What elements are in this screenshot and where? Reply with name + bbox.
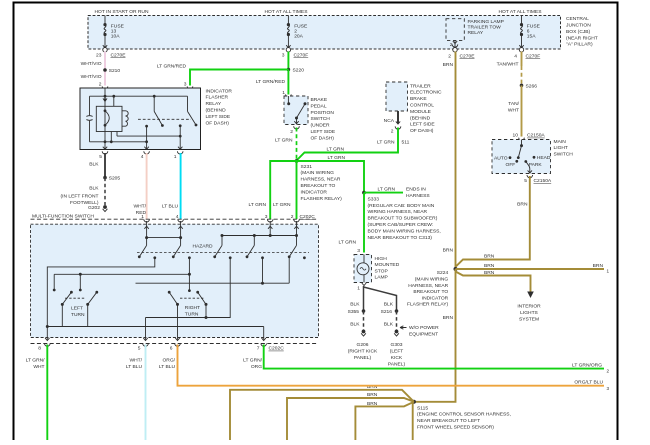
svg-text:(SUPER CAB/SUPER CREW:: (SUPER CAB/SUPER CREW: bbox=[368, 222, 434, 228]
svg-text:C270E: C270E bbox=[111, 52, 127, 58]
svg-text:EQUIPMENT: EQUIPMENT bbox=[409, 331, 438, 337]
wire BLK stop lamp to S355 bbox=[350, 286, 363, 311]
op: indicator flasher relay U1 box bbox=[80, 88, 201, 150]
labels LT GRN 511 bbox=[377, 140, 410, 146]
svg-text:PARKING LAMP: PARKING LAMP bbox=[468, 19, 504, 25]
svg-text:HARNESS, NEAR: HARNESS, NEAR bbox=[301, 177, 341, 183]
main light switch box bbox=[492, 140, 551, 174]
svg-text:2: 2 bbox=[291, 214, 294, 220]
C202C pin 1 bbox=[141, 214, 149, 222]
hazard dashed linkage bbox=[137, 252, 309, 254]
svg-text:SWITCH: SWITCH bbox=[311, 116, 331, 122]
svg-text:BRN: BRN bbox=[484, 254, 495, 260]
ground G303 bbox=[394, 330, 399, 337]
hazard blade at 254.3 bbox=[246, 245, 255, 258]
svg-text:10A: 10A bbox=[111, 34, 120, 40]
mfs pin 6 exit bbox=[170, 338, 181, 352]
mfs pin 1 arrow bbox=[144, 221, 148, 245]
label LT GRN ends bbox=[378, 187, 396, 193]
svg-text:BLK: BLK bbox=[384, 321, 394, 327]
splice S210 bbox=[103, 68, 120, 74]
label HOT AT ALL TIMES (fuse 6) bbox=[499, 9, 543, 15]
mfs rail H3 bbox=[136, 257, 290, 283]
wire LT GRN/RED S220 to relay pin 3 bbox=[190, 70, 288, 86]
svg-text:TURN: TURN bbox=[185, 311, 199, 317]
svg-text:HEAD: HEAD bbox=[537, 155, 551, 161]
svg-text:FOOTWELL): FOOTWELL) bbox=[70, 200, 99, 206]
svg-text:7: 7 bbox=[257, 346, 260, 352]
relay flasher unit rectangle bbox=[96, 106, 122, 131]
svg-text:NCA: NCA bbox=[384, 118, 395, 124]
svg-text:(ENGINE CONTROL SENSOR HARNESS: (ENGINE CONTROL SENSOR HARNESS, bbox=[417, 412, 511, 418]
svg-text:2: 2 bbox=[99, 81, 102, 87]
svg-text:RIGHT: RIGHT bbox=[185, 305, 200, 311]
svg-text:1: 1 bbox=[607, 268, 610, 273]
svg-text:NEAR BREAKOUT TO C313): NEAR BREAKOUT TO C313) bbox=[368, 235, 433, 241]
connector C202C bottom line bbox=[31, 344, 319, 352]
svg-text:FLASHER: FLASHER bbox=[206, 95, 229, 101]
label LT GRN/ORG bbox=[243, 357, 262, 370]
svg-text:ENDS IN: ENDS IN bbox=[406, 187, 426, 193]
mfs bottom rail bbox=[47, 327, 263, 340]
svg-text:C270F: C270F bbox=[294, 52, 309, 58]
mfs pin 4 arrow bbox=[178, 221, 182, 245]
hazard blade at 222 bbox=[213, 245, 222, 258]
S224 note bbox=[407, 270, 449, 308]
relay pin 2 entry bbox=[99, 81, 108, 93]
label HOT IN START OR RUN bbox=[95, 9, 149, 15]
relay pin 5 exit bbox=[99, 147, 108, 160]
mfs wire pin 5 drop bbox=[145, 318, 147, 340]
wire LT GRN/WHT pin8 down bbox=[46, 345, 48, 441]
svg-text:C202C: C202C bbox=[300, 214, 316, 220]
svg-text:(MAIN WIRING: (MAIN WIRING bbox=[415, 277, 449, 283]
label BRN branch3 bbox=[484, 270, 495, 276]
hazard rail 2 bbox=[221, 234, 297, 237]
svg-text:C2150A: C2150A bbox=[534, 178, 552, 184]
svg-text:LT GRN: LT GRN bbox=[273, 202, 291, 208]
relay pin 4 exit bbox=[141, 147, 150, 160]
svg-text:INDICATOR: INDICATOR bbox=[422, 295, 449, 301]
hazard rail 1 bbox=[147, 237, 181, 239]
svg-text:6: 6 bbox=[527, 29, 530, 35]
wire WHT/RED relay pin4 to C202C pin1 bbox=[146, 153, 148, 219]
label RIGHT TURN bbox=[185, 305, 200, 317]
svg-text:(IN LEFT FRONT: (IN LEFT FRONT bbox=[61, 193, 99, 199]
hazard contacts bbox=[153, 256, 305, 259]
label BRN above S224 bbox=[443, 248, 454, 254]
G303 labels bbox=[388, 342, 406, 368]
svg-text:MODULE: MODULE bbox=[410, 109, 432, 115]
wire LT GRN S231 to S333 bbox=[297, 161, 365, 193]
svg-text:WHT/: WHT/ bbox=[134, 204, 147, 210]
svg-text:G202: G202 bbox=[88, 205, 100, 211]
svg-text:NEAR BREAKOUT TO LEFT: NEAR BREAKOUT TO LEFT bbox=[417, 418, 480, 424]
svg-text:LT BLU: LT BLU bbox=[159, 364, 176, 370]
wire LT GRN S231 to C202C pin 3 bbox=[270, 161, 296, 219]
svg-text:BRN: BRN bbox=[443, 62, 454, 68]
connector C270F pin 3 bbox=[282, 48, 308, 59]
label LT GRN/RED horizontal bbox=[157, 64, 187, 70]
S333 note bbox=[368, 196, 441, 240]
svg-text:FUSE: FUSE bbox=[294, 23, 308, 29]
svg-text:(BEHIND: (BEHIND bbox=[206, 108, 227, 114]
svg-text:C270F: C270F bbox=[526, 53, 541, 59]
svg-text:WIRING HARNESS, NEAR: WIRING HARNESS, NEAR bbox=[368, 209, 428, 215]
svg-text:1: 1 bbox=[357, 286, 360, 292]
svg-text:LEFT SIDE: LEFT SIDE bbox=[311, 129, 336, 135]
svg-text:ORG/LT BLU: ORG/LT BLU bbox=[574, 380, 603, 386]
svg-text:4: 4 bbox=[141, 154, 144, 160]
splice S224 bbox=[454, 267, 458, 271]
svg-text:G303: G303 bbox=[391, 342, 403, 348]
S231 note bbox=[301, 164, 343, 202]
svg-text:STOP: STOP bbox=[375, 268, 388, 274]
label WHT/RED bbox=[134, 204, 147, 216]
svg-text:BRN: BRN bbox=[593, 263, 604, 269]
svg-text:INDICATOR: INDICATOR bbox=[301, 189, 328, 195]
svg-text:LT GRN: LT GRN bbox=[377, 140, 395, 146]
wire TAN/WHT S266 to light switch bbox=[521, 85, 523, 136]
svg-text:MULTI-FUNCTION SWITCH: MULTI-FUNCTION SWITCH bbox=[32, 213, 94, 219]
label ENDS IN HARNESS bbox=[406, 187, 430, 199]
svg-text:BLK: BLK bbox=[89, 161, 99, 167]
wire BRN S115 branch c bbox=[355, 402, 414, 440]
svg-text:4: 4 bbox=[514, 53, 517, 59]
label LT GRN pin2 bbox=[273, 202, 291, 208]
splice S266 bbox=[520, 83, 538, 89]
svg-text:LT BLU: LT BLU bbox=[126, 364, 143, 370]
svg-text:3: 3 bbox=[607, 386, 610, 391]
svg-text:LT BLU: LT BLU bbox=[162, 204, 179, 210]
wire LT GRN dashed brake switch to S231 bbox=[296, 128, 298, 161]
hazard feed stubs bbox=[222, 236, 254, 246]
wire BRN S224 down to S115 bbox=[414, 269, 456, 402]
hazard blade at 146.6 bbox=[138, 245, 147, 258]
label BRN light switch bbox=[517, 201, 528, 207]
label WHT/LT BLU bbox=[126, 357, 143, 370]
relay internal wire to pin 1 bbox=[117, 124, 182, 149]
svg-text:C202C: C202C bbox=[269, 346, 285, 352]
relay internal main vertical pin2-pin5 bbox=[103, 88, 108, 150]
svg-text:5: 5 bbox=[99, 154, 102, 160]
W/O POWER EQUIPMENT pointer bbox=[400, 325, 439, 337]
wire LT GRN S333 to stop lamp bbox=[363, 193, 365, 253]
splice S231 bbox=[295, 159, 299, 163]
relay pin 1 exit bbox=[174, 147, 183, 160]
relay heater coil bbox=[122, 111, 128, 126]
svg-text:BRN: BRN bbox=[367, 401, 378, 407]
label BRN a bbox=[367, 384, 378, 390]
main light switch labels bbox=[554, 139, 574, 158]
label LT GRN/ORG right bbox=[572, 363, 609, 374]
svg-text:2: 2 bbox=[294, 29, 297, 35]
svg-text:"A" PILLAR): "A" PILLAR) bbox=[566, 42, 593, 48]
label BRN right edge bbox=[593, 263, 610, 273]
svg-text:LEFT: LEFT bbox=[71, 305, 83, 311]
svg-text:HOT AT ALL TIMES: HOT AT ALL TIMES bbox=[499, 9, 543, 15]
svg-text:LT GRN: LT GRN bbox=[328, 155, 346, 161]
svg-text:LEFT SIDE: LEFT SIDE bbox=[410, 122, 435, 128]
svg-text:AUTO: AUTO bbox=[494, 155, 508, 161]
wire WHT/LT BLU pin5 down bbox=[145, 345, 147, 441]
brake switch pin 2 exit bbox=[290, 121, 299, 135]
svg-text:PEDAL: PEDAL bbox=[311, 103, 327, 109]
mfs pin 2 arrow bbox=[294, 221, 298, 245]
relay internal top rail bbox=[90, 95, 188, 97]
fuse 6 15A bbox=[519, 16, 540, 48]
wire LT BLU relay pin1 to C202C pin4 bbox=[180, 153, 182, 219]
light switch contacts bbox=[494, 140, 551, 174]
svg-text:LT GRN/RED: LT GRN/RED bbox=[157, 64, 187, 70]
central junction box CJB bbox=[88, 16, 561, 50]
svg-text:SYSTEM: SYSTEM bbox=[519, 317, 539, 323]
wire BRN S224 to interior lights bbox=[456, 272, 531, 292]
high mounted stop lamp box bbox=[354, 255, 372, 283]
mfs wire contact2 drop bbox=[188, 258, 191, 292]
label IN LEFT FRONT FOOTWELL bbox=[61, 193, 99, 206]
svg-text:ORG/: ORG/ bbox=[163, 357, 176, 363]
light switch pin 10 entry bbox=[513, 133, 546, 144]
svg-text:LT GRN: LT GRN bbox=[378, 187, 396, 193]
relay contact switch 2 bbox=[188, 96, 198, 126]
C202C pin 3 bbox=[265, 214, 273, 222]
splice S115 bbox=[412, 400, 416, 404]
label BRN b bbox=[367, 392, 378, 398]
svg-text:S355: S355 bbox=[348, 309, 360, 315]
wire LT GRN/ORG pin7 to edge ref 2 bbox=[264, 345, 604, 369]
svg-text:TURN: TURN bbox=[71, 312, 85, 318]
svg-text:LT GRN/: LT GRN/ bbox=[26, 357, 45, 363]
svg-text:C270E: C270E bbox=[460, 53, 476, 59]
relay actuation dashed line bbox=[138, 118, 191, 120]
svg-text:S220: S220 bbox=[293, 67, 305, 73]
S115 note bbox=[417, 405, 511, 430]
wire BLK stop lamp to S216 bbox=[364, 287, 397, 311]
wire ORG/LT BLU pin6 to edge ref 3 bbox=[178, 345, 605, 386]
svg-text:PANEL): PANEL) bbox=[354, 355, 372, 361]
splice S220 bbox=[287, 67, 305, 73]
mfs pin 7 exit bbox=[257, 338, 267, 352]
svg-text:(BEHIND: (BEHIND bbox=[410, 115, 431, 121]
svg-text:BRN: BRN bbox=[443, 315, 454, 321]
wire BLK dashed to G202 bbox=[89, 178, 105, 205]
splice S216 bbox=[381, 309, 399, 315]
hazard blade at 180.6 bbox=[172, 245, 181, 258]
connector C270E pin 23 bbox=[96, 48, 126, 59]
mfs pin 3 arrow bbox=[268, 221, 272, 237]
svg-text:HAZARD: HAZARD bbox=[192, 243, 213, 249]
wire LT GRN/RED fuse2 to S220 bbox=[287, 52, 289, 70]
label LT GRN pin3 bbox=[249, 202, 267, 208]
svg-text:HOT IN START OR RUN: HOT IN START OR RUN bbox=[95, 9, 149, 15]
splice S355 bbox=[348, 309, 366, 315]
svg-text:HARNESS: HARNESS bbox=[406, 193, 430, 199]
svg-text:G206: G206 bbox=[357, 342, 369, 348]
svg-text:LIGHT: LIGHT bbox=[554, 145, 568, 151]
label TAN/WHT bbox=[497, 62, 519, 68]
svg-text:BRN: BRN bbox=[484, 263, 495, 269]
svg-text:KICK: KICK bbox=[391, 355, 403, 361]
svg-text:S266: S266 bbox=[526, 83, 538, 89]
svg-text:PANEL): PANEL) bbox=[388, 362, 406, 368]
brake pedal switch labels bbox=[311, 97, 336, 141]
svg-text:3: 3 bbox=[265, 214, 268, 220]
label LT GRN stop lamp bbox=[339, 240, 357, 246]
svg-text:OF DASH): OF DASH) bbox=[410, 128, 434, 134]
wire BRN C270E pin2 to S224 bbox=[455, 52, 457, 270]
relay contact switch 1 bbox=[153, 95, 164, 127]
svg-text:INTERIOR: INTERIOR bbox=[517, 303, 541, 309]
svg-text:HARNESS, NEAR: HARNESS, NEAR bbox=[408, 283, 448, 289]
svg-text:5: 5 bbox=[138, 346, 141, 352]
stop lamp pin 1 exit bbox=[357, 283, 366, 292]
mfs rail H2 bbox=[54, 273, 189, 276]
svg-text:LT GRN/: LT GRN/ bbox=[243, 357, 262, 363]
label HOT AT ALL TIMES (fuse 2) bbox=[265, 9, 309, 15]
svg-text:S231: S231 bbox=[301, 164, 313, 170]
svg-text:LT GRN: LT GRN bbox=[249, 202, 267, 208]
label BRN mid bbox=[484, 263, 495, 269]
svg-text:WHT/: WHT/ bbox=[130, 357, 143, 363]
label LT GRN above bbox=[328, 155, 346, 161]
wire LT GRN ends in harness bbox=[364, 192, 403, 194]
mfs wire contact3 to pin5 rail bbox=[146, 258, 231, 319]
svg-text:15A: 15A bbox=[527, 34, 536, 40]
svg-text:(MAIN WIRING: (MAIN WIRING bbox=[301, 170, 335, 176]
svg-text:PARK: PARK bbox=[529, 162, 543, 168]
svg-text:INDICATOR: INDICATOR bbox=[206, 88, 233, 94]
label MULTI-FUNCTION SWITCH bbox=[32, 213, 94, 219]
label LT GRN/RED vertical bbox=[256, 79, 286, 85]
svg-text:TAN/: TAN/ bbox=[508, 101, 519, 107]
label LT GRN above wire bbox=[327, 147, 345, 153]
svg-text:BODY MAIN WIRING HARNESS,: BODY MAIN WIRING HARNESS, bbox=[368, 228, 441, 234]
C202C pin 4 bbox=[176, 214, 184, 222]
svg-text:BRAKE: BRAKE bbox=[311, 97, 328, 103]
mfs pin 8 exit bbox=[38, 338, 50, 352]
right turn linkage bbox=[180, 297, 204, 299]
svg-text:HOT AT ALL TIMES: HOT AT ALL TIMES bbox=[265, 9, 309, 15]
wire BLK dashed S355 to G206 bbox=[350, 311, 363, 330]
svg-text:(LEFT: (LEFT bbox=[390, 348, 404, 354]
mfs wire contact4 drop bbox=[261, 258, 264, 285]
label LT GRN bbox=[275, 137, 293, 143]
svg-text:3: 3 bbox=[282, 52, 285, 58]
svg-text:BOX (CJB): BOX (CJB) bbox=[566, 29, 591, 35]
svg-text:BRN: BRN bbox=[517, 201, 528, 207]
ground G206 bbox=[361, 330, 366, 337]
svg-text:1: 1 bbox=[174, 154, 177, 160]
label LT BLU bbox=[162, 204, 179, 210]
svg-text:JUNCTION: JUNCTION bbox=[566, 23, 591, 29]
left turn blades bbox=[62, 291, 98, 305]
splice S333 bbox=[362, 191, 366, 195]
ground G202 bbox=[88, 205, 107, 212]
svg-text:OFF: OFF bbox=[506, 162, 516, 168]
svg-text:WHT: WHT bbox=[33, 364, 44, 370]
svg-text:BRN: BRN bbox=[484, 270, 495, 276]
svg-text:BRN: BRN bbox=[443, 248, 454, 254]
svg-text:CONTROL: CONTROL bbox=[410, 103, 434, 109]
mfs wire contact1 to pin 8 bbox=[46, 258, 155, 340]
svg-text:OF DASH): OF DASH) bbox=[311, 135, 335, 141]
brake pedal position switch box bbox=[284, 96, 308, 125]
svg-text:10: 10 bbox=[513, 133, 519, 139]
trailer module pin stub NCA bbox=[384, 111, 401, 135]
svg-text:TAN/WHT: TAN/WHT bbox=[497, 62, 519, 68]
svg-text:BREAKOUT TO: BREAKOUT TO bbox=[413, 289, 448, 295]
svg-text:S115: S115 bbox=[417, 405, 428, 411]
connector C270E pin 2 bbox=[448, 48, 475, 60]
svg-text:MAIN: MAIN bbox=[554, 139, 567, 145]
svg-text:LIGHTS: LIGHTS bbox=[520, 310, 538, 316]
label BRN branch1 bbox=[484, 254, 495, 260]
wire BRN S224 to edge ref 1 bbox=[456, 268, 605, 270]
svg-text:TRAILER TOW: TRAILER TOW bbox=[468, 24, 502, 30]
label WHT/VIO upper bbox=[81, 61, 102, 67]
relay internal left loop with capacitor bbox=[86, 96, 92, 142]
svg-text:LEFT SIDE: LEFT SIDE bbox=[206, 114, 231, 120]
wire WHT/VIO fuse13 to relay pin 2 bbox=[104, 52, 106, 86]
CJB label CENTRAL JUNCTION BOX bbox=[566, 16, 598, 47]
svg-text:BLK: BLK bbox=[350, 321, 360, 327]
G206 labels bbox=[348, 342, 378, 361]
svg-text:SWITCH: SWITCH bbox=[554, 151, 574, 157]
svg-text:5: 5 bbox=[524, 178, 527, 184]
svg-text:S333: S333 bbox=[368, 196, 380, 202]
stop lamp labels bbox=[375, 256, 400, 281]
svg-text:4: 4 bbox=[176, 214, 179, 220]
svg-text:13: 13 bbox=[111, 29, 117, 35]
svg-text:OF DASH): OF DASH) bbox=[206, 120, 230, 126]
svg-text:LT GRN: LT GRN bbox=[275, 137, 293, 143]
svg-text:ELECTRONIC: ELECTRONIC bbox=[410, 90, 442, 96]
svg-text:3: 3 bbox=[357, 248, 360, 254]
svg-text:S205: S205 bbox=[109, 176, 121, 182]
multifunction switch box bbox=[31, 224, 319, 337]
svg-text:2: 2 bbox=[391, 129, 394, 135]
label HAZARD bbox=[192, 243, 213, 249]
wire BRN S115 down bbox=[412, 402, 414, 440]
label BRN top bbox=[443, 62, 454, 68]
svg-text:(REGULAR CAB: BODY MAIN: (REGULAR CAB: BODY MAIN bbox=[368, 203, 435, 209]
wire BRN S115 branch b bbox=[287, 398, 414, 440]
fuse 2 20A bbox=[286, 16, 308, 48]
svg-text:BRAKE: BRAKE bbox=[410, 96, 427, 102]
svg-text:BLK: BLK bbox=[384, 301, 394, 307]
C202C pin 2 bbox=[291, 214, 300, 222]
svg-text:2: 2 bbox=[448, 53, 451, 59]
svg-text:C2150A: C2150A bbox=[527, 133, 545, 139]
relay flasher arc element bbox=[105, 111, 109, 126]
label BRN below S224 bbox=[443, 315, 454, 321]
label ORG/LT BLU bbox=[159, 357, 176, 370]
wire BRN light switch to S224 bbox=[456, 176, 530, 267]
svg-text:BREAKOUT TO SUBWOOFER): BREAKOUT TO SUBWOOFER) bbox=[368, 216, 438, 222]
svg-text:LT GRN: LT GRN bbox=[339, 240, 357, 246]
svg-text:MOUNTED: MOUNTED bbox=[375, 262, 400, 268]
wire BRN S115 branch a bbox=[230, 390, 414, 440]
parking lamp trailer tow relay bbox=[446, 19, 504, 48]
label INTERIOR LIGHTS SYSTEM bbox=[517, 303, 541, 322]
label BRN c bbox=[367, 401, 378, 407]
svg-text:23: 23 bbox=[96, 52, 102, 58]
svg-text:POSITION: POSITION bbox=[311, 110, 335, 116]
svg-text:8: 8 bbox=[38, 346, 41, 352]
svg-text:FUSE: FUSE bbox=[527, 23, 541, 29]
svg-text:6: 6 bbox=[170, 346, 173, 352]
